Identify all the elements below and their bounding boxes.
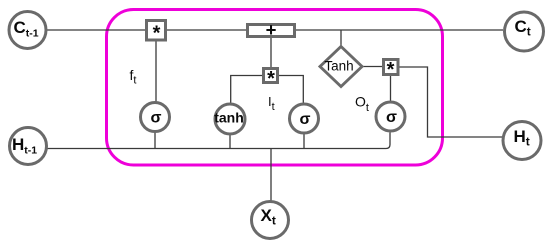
multiplier box *1 (forget gate): [147, 21, 166, 45]
node Ct: [505, 12, 544, 51]
wire: sigma1 down to H-line: [154, 132, 156, 149]
wire C-line: Ct-1 to Ct: [46, 29, 503, 31]
svg-text:σ: σ: [300, 111, 311, 128]
wire: tanh circle down to H-line: [229, 134, 231, 149]
wire: Tanh diamond up to C-line: [340, 30, 342, 46]
wire: mult2 left arm to tanh circle: [231, 76, 262, 105]
wire: mult3 right arm down to Ht: [399, 67, 503, 137]
wire: mult2 right arm to sigma2 circle: [279, 76, 303, 105]
node Ht-1: [10, 128, 47, 165]
svg-text:σ: σ: [151, 110, 162, 127]
svg-text:tanh: tanh: [214, 110, 244, 126]
svg-text:Tanh: Tanh: [324, 59, 353, 74]
node Ct-1: [9, 12, 46, 49]
adder box +: [248, 19, 295, 40]
svg-text:*: *: [387, 59, 395, 81]
svg-text:*: *: [267, 68, 275, 90]
multiplier box *2 (input gate): [264, 68, 278, 90]
node Xt: [252, 202, 289, 239]
svg-text:σ: σ: [386, 109, 397, 126]
wire: plus box down to mult2: [270, 38, 272, 67]
sigma2 circle (input gate activation): [290, 104, 319, 133]
multiplier box *3 (output gate): [384, 59, 399, 81]
wire: mult1 box down to sigma1: [155, 41, 157, 102]
tanh circle: [214, 104, 245, 134]
wire: sigma2 down to H-line: [303, 133, 305, 149]
svg-text:+: +: [266, 19, 277, 40]
Tanh diamond: [320, 47, 362, 87]
LSTM cell boundary (magenta rounded box): [107, 10, 443, 166]
sigma1 circle (forget gate activation): [141, 103, 170, 132]
wire: Tanh diamond to mult3 box: [362, 66, 382, 68]
wire: H-line down to Xt: [270, 149, 272, 202]
node Ht: [503, 122, 541, 160]
wire: mult3 down to sigma3: [390, 76, 392, 102]
svg-text:*: *: [153, 22, 161, 44]
sigma3 circle (output gate activation): [376, 102, 405, 131]
wire H-line: Ht-1 across bottom, elbow up to sigma3: [47, 133, 390, 149]
